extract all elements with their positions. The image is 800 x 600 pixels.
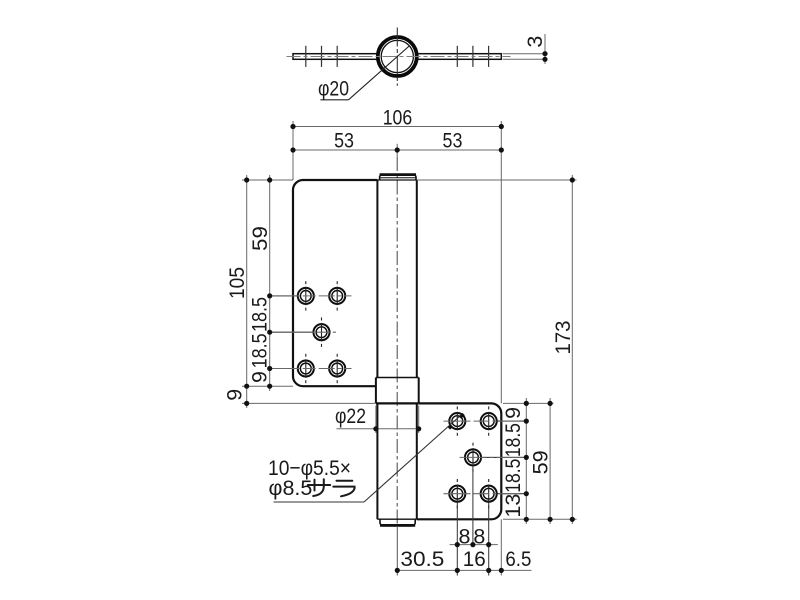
svg-text:8: 8 — [459, 524, 471, 548]
svg-text:18.5: 18.5 — [501, 423, 525, 457]
svg-text:173: 173 — [551, 320, 575, 354]
svg-text:105: 105 — [225, 267, 249, 299]
svg-text:53: 53 — [443, 129, 463, 153]
svg-text:16: 16 — [463, 547, 486, 571]
svg-text:106: 106 — [383, 105, 413, 129]
svg-text:φ22: φ22 — [335, 404, 366, 428]
svg-text:9: 9 — [223, 389, 247, 401]
svg-text:9: 9 — [248, 371, 272, 383]
svg-text:53: 53 — [334, 129, 354, 153]
svg-text:8: 8 — [473, 524, 485, 548]
svg-text:6.5: 6.5 — [505, 547, 531, 571]
svg-text:59: 59 — [529, 450, 553, 474]
svg-text:30.5: 30.5 — [400, 547, 444, 571]
svg-text:13: 13 — [501, 494, 525, 518]
svg-text:φ8.5: φ8.5 — [269, 476, 313, 500]
svg-text:9: 9 — [501, 407, 525, 419]
svg-text:3: 3 — [523, 36, 547, 48]
svg-text:59: 59 — [248, 226, 272, 251]
svg-text:φ20: φ20 — [318, 77, 349, 101]
svg-text:18.5: 18.5 — [501, 459, 525, 493]
svg-text:18.5: 18.5 — [248, 297, 272, 332]
svg-text:18.5: 18.5 — [248, 333, 272, 368]
